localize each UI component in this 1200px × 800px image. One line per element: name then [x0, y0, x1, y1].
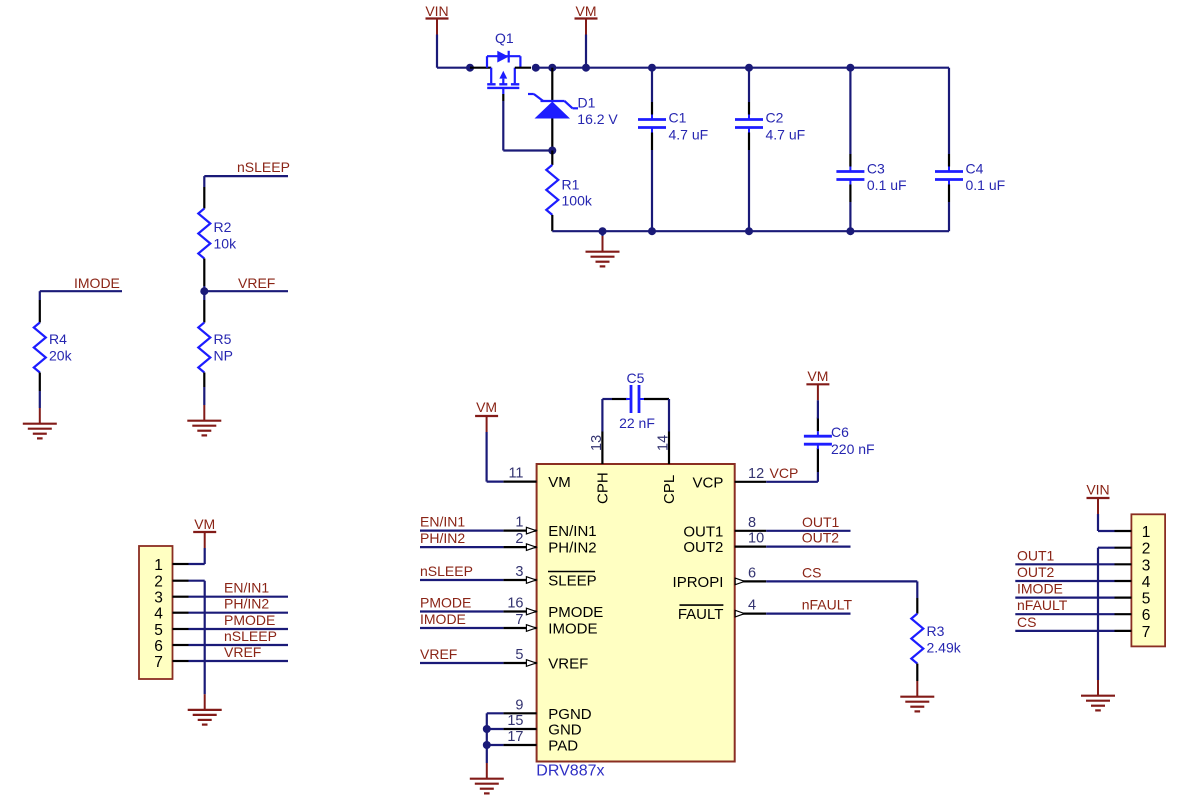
svg-text:20k: 20k	[49, 348, 73, 364]
capacitor C3	[849, 167, 851, 172]
junction C1 top	[648, 64, 656, 72]
wire gnd stub	[601, 231, 603, 236]
resistor R5	[198, 323, 210, 373]
svg-text:R1: R1	[562, 177, 580, 193]
wire Q1 gate pin	[502, 94, 504, 101]
svg-text:nFAULT: nFAULT	[1017, 597, 1068, 613]
wire VCP riser	[817, 472, 819, 482]
junction VIN bus	[466, 64, 474, 72]
svg-text:9: 9	[515, 697, 523, 713]
resistor R4	[34, 323, 46, 373]
wire R3 top pin	[916, 598, 918, 614]
wire top bus right	[586, 67, 949, 69]
connector J1 pin 3 stub	[173, 596, 189, 598]
svg-text:PMODE: PMODE	[420, 595, 471, 611]
wire PH/IN2 (U1)	[420, 546, 503, 548]
svg-text:15: 15	[507, 713, 523, 729]
wire bus segment	[536, 67, 553, 69]
svg-text:OUT1: OUT1	[1017, 547, 1055, 563]
capacitor C1	[651, 115, 653, 120]
pin 17 (PAD) stub	[503, 744, 536, 746]
svg-text:OUT1: OUT1	[683, 523, 723, 540]
svg-text:16.2 V: 16.2 V	[577, 111, 618, 127]
svg-text:VREF: VREF	[224, 644, 261, 660]
junction Q1 drain	[532, 64, 540, 72]
wire C2 bottom	[748, 133, 750, 151]
svg-text:PAD: PAD	[548, 738, 578, 755]
svg-text:PH/IN2: PH/IN2	[420, 530, 465, 546]
svg-text:VIN: VIN	[1086, 482, 1109, 498]
wire C4 bottom	[948, 185, 950, 203]
wire R4 top	[39, 291, 41, 300]
connector J1 pin 7 stub	[173, 660, 189, 662]
junction D1-R1 node	[548, 147, 556, 155]
wire CPL riser	[668, 399, 670, 432]
wire C6 top	[817, 418, 819, 432]
wire VM-C6 stub	[817, 400, 819, 418]
svg-text:OUT1: OUT1	[802, 514, 840, 530]
wire nFAULT (U1)	[766, 612, 850, 614]
svg-text:nFAULT: nFAULT	[802, 597, 853, 613]
wire C1 top	[651, 68, 653, 102]
capacitor C5	[626, 398, 631, 400]
svg-text:C6: C6	[831, 424, 849, 440]
svg-text:1: 1	[154, 557, 163, 574]
connector J1 body	[139, 546, 173, 679]
svg-text:GND: GND	[548, 722, 582, 739]
svg-text:14: 14	[656, 435, 672, 451]
svg-text:0.1 uF: 0.1 uF	[966, 177, 1006, 193]
svg-text:4.7 uF: 4.7 uF	[766, 127, 806, 143]
svg-text:5: 5	[154, 622, 163, 639]
svg-text:VREF: VREF	[238, 275, 275, 291]
svg-text:C1: C1	[669, 110, 687, 126]
svg-text:4.7 uF: 4.7 uF	[669, 127, 709, 143]
resistor R2	[198, 209, 210, 259]
pin 8 (OUT1) stub	[735, 530, 767, 532]
svg-text:5: 5	[1142, 591, 1151, 608]
svg-text:4: 4	[748, 598, 756, 614]
svg-text:3: 3	[154, 590, 163, 607]
wire R1 bottom pin	[551, 215, 553, 231]
wire C4 top	[948, 68, 950, 154]
connector J1 pin 5 stub	[173, 628, 189, 630]
svg-text:nSLEEP: nSLEEP	[224, 628, 277, 644]
wire VCP	[766, 481, 818, 483]
wire J1 PMODE	[189, 628, 289, 630]
svg-text:IMODE: IMODE	[548, 621, 597, 638]
svg-text:EN/IN1: EN/IN1	[548, 523, 596, 540]
junction VM	[582, 64, 590, 72]
svg-text:IMODE: IMODE	[1017, 581, 1063, 597]
svg-text:2: 2	[515, 531, 523, 547]
svg-text:VM: VM	[548, 474, 571, 491]
connector J2 pin 2 stub	[1115, 547, 1132, 549]
connector J2 pin 4 stub	[1115, 580, 1132, 582]
svg-text:4: 4	[1142, 574, 1151, 591]
wire PAD tie	[487, 744, 504, 746]
pin 1 (EN/IN1) stub	[503, 529, 536, 531]
svg-text:7: 7	[515, 612, 523, 628]
connector J1 pin 4 stub	[173, 612, 189, 614]
svg-text:6: 6	[154, 638, 163, 655]
wire PMODE (U1)	[420, 610, 503, 612]
wire pin to Q1 source	[470, 67, 491, 69]
svg-text:0.1 uF: 0.1 uF	[867, 177, 907, 193]
wire GND tie	[487, 728, 504, 730]
svg-text:11: 11	[508, 466, 523, 482]
svg-text:8: 8	[748, 515, 756, 531]
op-amp U1 DRV887x body	[537, 464, 735, 762]
wire R1 top pin	[551, 151, 553, 165]
svg-text:NP: NP	[214, 348, 233, 364]
wire IMODE	[40, 290, 122, 292]
svg-text:7: 7	[154, 654, 163, 671]
pin 15 (GND) stub	[503, 728, 536, 730]
wire VIN to J2 pin1	[1097, 514, 1099, 531]
ground (U1)	[486, 763, 488, 779]
capacitor C4	[948, 167, 950, 172]
svg-text:R3: R3	[927, 623, 945, 639]
zener diode D1	[541, 100, 565, 102]
wire VM to J1 pin1	[204, 548, 206, 564]
connector J1 pin 1 stub	[173, 563, 189, 565]
wire EN/IN1 (U1)	[420, 529, 503, 531]
junction gnd tap	[599, 227, 607, 235]
svg-text:R5: R5	[214, 331, 232, 347]
junction GND	[483, 725, 491, 733]
svg-text:C4: C4	[966, 160, 984, 176]
svg-text:1: 1	[1142, 524, 1151, 541]
wire Q1 drain pin	[515, 67, 531, 69]
pin 7 (IMODE) stub	[503, 627, 536, 629]
svg-text:4: 4	[154, 606, 163, 623]
wire OUT2 (U1)	[766, 545, 850, 547]
svg-text:220 nF: 220 nF	[831, 441, 875, 457]
wire D1 cathode pin	[551, 68, 553, 101]
junction C2 bottom	[745, 227, 753, 235]
ground (R4)	[39, 408, 41, 424]
svg-text:C3: C3	[867, 160, 885, 176]
svg-text:VIN: VIN	[425, 3, 448, 19]
pin 2 (PH/IN2) stub	[503, 546, 536, 548]
wire J2 IMODE	[1015, 596, 1114, 598]
connector J2 pin 3 stub	[1115, 563, 1132, 565]
pin 14 (CPL) stub	[668, 432, 670, 465]
wire VM to pin 11	[486, 432, 488, 482]
pin 13 (CPH) stub	[601, 432, 603, 465]
svg-text:16: 16	[507, 596, 523, 612]
wire D1 anode pin	[551, 119, 553, 151]
resistor R1	[546, 165, 558, 215]
pin 4 (FAULT) stub	[735, 612, 767, 614]
svg-text:D1: D1	[578, 95, 596, 111]
wire J2 pin2 to ground	[1098, 547, 1115, 549]
svg-text:VM: VM	[476, 399, 497, 415]
wire Q1 gate to zener node	[502, 101, 504, 151]
svg-text:EN/IN1: EN/IN1	[224, 580, 269, 596]
ground (J2)	[1097, 680, 1099, 696]
wire J1 PH/IN2	[189, 612, 289, 614]
wire R4 bottom	[39, 373, 41, 392]
transistor Q1 (P-MOSFET)	[487, 55, 520, 57]
svg-text:nSLEEP: nSLEEP	[237, 159, 290, 175]
svg-text:6: 6	[748, 565, 756, 581]
svg-text:3: 3	[515, 564, 523, 580]
svg-text:17: 17	[507, 729, 523, 745]
svg-text:VM: VM	[194, 516, 215, 532]
svg-text:CPL: CPL	[661, 475, 678, 504]
svg-text:IPROPI: IPROPI	[673, 574, 724, 591]
wire J2 CS	[1015, 630, 1114, 632]
svg-text:6: 6	[1142, 607, 1151, 624]
junction C1 bottom	[648, 227, 656, 235]
pin 10 (OUT2) stub	[735, 545, 767, 547]
svg-text:2: 2	[1142, 541, 1151, 558]
svg-text:10k: 10k	[214, 236, 238, 252]
svg-text:Q1: Q1	[495, 30, 514, 46]
svg-text:CS: CS	[1017, 614, 1036, 630]
junction D1 top	[548, 64, 556, 72]
pin 11 (VM) stub	[503, 481, 536, 483]
wire J1 nSLEEP	[189, 644, 289, 646]
wire nSLEEP	[204, 175, 288, 177]
junction PAD	[483, 741, 491, 749]
wire bottom bus	[552, 230, 949, 232]
svg-text:OUT2: OUT2	[683, 539, 723, 556]
ground (R3)	[916, 681, 918, 697]
wire C1 bottom	[651, 133, 653, 151]
pin 16 (PMODE) stub	[503, 610, 536, 612]
wire CPL horiz	[644, 398, 669, 400]
wire CPH horiz	[602, 398, 612, 400]
wire J2 nFAULT	[1015, 613, 1114, 615]
wire C2 top	[748, 68, 750, 102]
svg-text:VM: VM	[807, 368, 828, 384]
svg-text:OUT2: OUT2	[802, 530, 840, 546]
wire C3 top	[849, 68, 851, 154]
pin 9 (PGND) stub	[503, 712, 536, 714]
wire R5 bottom	[203, 373, 205, 388]
svg-text:2: 2	[154, 574, 163, 591]
connector J1 pin 2 stub	[173, 580, 189, 582]
wire VREF (U1)	[420, 662, 503, 664]
resistor R3	[911, 614, 923, 664]
svg-text:SLEEP: SLEEP	[548, 573, 596, 590]
wire R2 bottom	[203, 259, 205, 287]
wire OUT1 (U1)	[766, 530, 850, 532]
svg-text:1: 1	[515, 515, 523, 531]
wire R2 top	[203, 176, 205, 187]
svg-text:C2: C2	[766, 110, 784, 126]
svg-text:PH/IN2: PH/IN2	[224, 596, 269, 612]
svg-text:nSLEEP: nSLEEP	[420, 563, 473, 579]
wire nSLEEP (U1)	[420, 579, 503, 581]
ground (R5)	[203, 405, 205, 421]
wire J1 VREF	[189, 660, 289, 662]
wire CS (U1)	[766, 580, 917, 582]
svg-text:PMODE: PMODE	[548, 604, 603, 621]
pin 3 (SLEEP) stub	[503, 579, 536, 581]
wire J2 OUT2	[1015, 580, 1114, 582]
svg-text:PH/IN2: PH/IN2	[548, 540, 596, 557]
svg-text:C5: C5	[627, 370, 645, 386]
svg-text:VREF: VREF	[420, 646, 457, 662]
wire R3 bottom pin	[916, 664, 918, 681]
svg-text:VM: VM	[576, 3, 597, 19]
junction VREF node	[200, 287, 208, 295]
ground (J1)	[204, 694, 206, 710]
svg-text:CS: CS	[802, 564, 821, 580]
svg-text:12: 12	[748, 466, 764, 482]
svg-text:IMODE: IMODE	[420, 611, 466, 627]
svg-text:2.49k: 2.49k	[927, 640, 962, 656]
capacitor C6	[817, 431, 819, 436]
wire IMODE (U1)	[420, 627, 503, 629]
wire CPH riser	[601, 399, 603, 432]
svg-text:10: 10	[748, 531, 764, 547]
pin 12 (VCP) stub	[735, 481, 767, 483]
svg-text:VCP: VCP	[770, 465, 799, 481]
pin 5 (VREF) stub	[503, 662, 536, 664]
wire CS riser	[916, 581, 918, 598]
svg-text:EN/IN1: EN/IN1	[420, 514, 465, 530]
connector J2 pin 6 stub	[1115, 613, 1132, 615]
junction C3 top	[846, 64, 854, 72]
svg-text:22 nF: 22 nF	[619, 415, 655, 431]
wire VM stub	[585, 35, 587, 68]
connector J2 body	[1131, 514, 1165, 646]
svg-text:DRV887x: DRV887x	[536, 762, 604, 779]
svg-text:PGND: PGND	[548, 706, 592, 723]
wire J1 EN/IN1	[189, 596, 289, 598]
connector J1 pin 6 stub	[173, 644, 189, 646]
wire C3 bottom	[849, 185, 851, 203]
connector J2 pin 7 stub	[1115, 630, 1132, 632]
svg-text:5: 5	[515, 647, 523, 663]
capacitor C2	[748, 115, 750, 120]
svg-text:100k: 100k	[562, 193, 593, 209]
wire J2 OUT1	[1015, 563, 1114, 565]
connector J2 pin 5 stub	[1115, 596, 1132, 598]
junction C3 bottom	[846, 227, 854, 235]
svg-text:PMODE: PMODE	[224, 612, 275, 628]
svg-text:IMODE: IMODE	[74, 275, 120, 291]
wire PGND tie	[487, 712, 504, 714]
svg-text:R4: R4	[49, 331, 67, 347]
wire VREF	[204, 290, 288, 292]
svg-text:3: 3	[1142, 557, 1151, 574]
svg-text:CPH: CPH	[595, 472, 612, 504]
wire R5 top	[203, 291, 205, 300]
wire bus to VM	[552, 67, 586, 69]
junction C2 top	[745, 64, 753, 72]
svg-text:7: 7	[1142, 624, 1151, 641]
wire VIN to bus	[436, 35, 438, 68]
wire J1 pin2 to ground	[189, 580, 205, 582]
svg-text:OUT2: OUT2	[1017, 564, 1055, 580]
svg-text:VREF: VREF	[548, 656, 588, 673]
svg-text:13: 13	[589, 435, 605, 451]
connector J2 pin 1 stub	[1115, 530, 1132, 532]
svg-text:FAULT: FAULT	[678, 606, 724, 623]
svg-text:R2: R2	[214, 219, 232, 235]
svg-text:VCP: VCP	[693, 474, 724, 491]
ground (main bus)	[602, 236, 604, 252]
pin 6 (IPROPI) stub	[735, 580, 767, 582]
